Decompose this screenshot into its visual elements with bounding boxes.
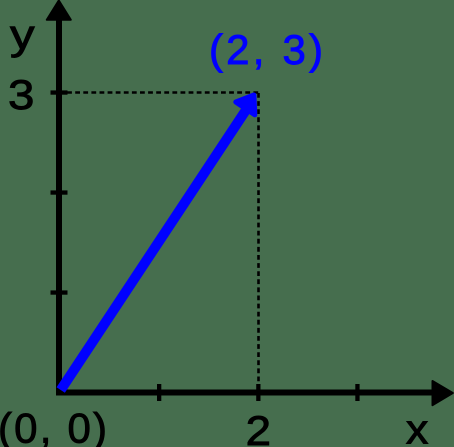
svg-text:2: 2 xyxy=(246,407,271,447)
svg-text:3: 3 xyxy=(8,71,34,118)
svg-text:x: x xyxy=(406,406,429,447)
svg-text:y: y xyxy=(10,11,35,58)
svg-text:(0, 0): (0, 0) xyxy=(0,405,109,447)
svg-text:(2, 3): (2, 3) xyxy=(209,26,326,73)
